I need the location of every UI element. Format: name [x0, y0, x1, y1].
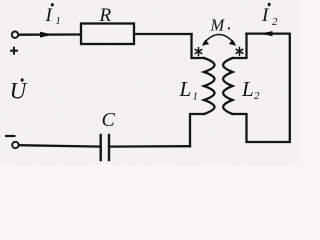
- svg-text:2: 2: [272, 16, 278, 28]
- wire: L1 bottom to lower-left corner: [190, 114, 204, 146]
- svg-text:L: L: [241, 77, 254, 101]
- svg-text:M: M: [210, 16, 226, 35]
- label L2: [241, 77, 260, 102]
- wire: bottom right segment (L1 to capacitor): [109, 145, 190, 148]
- wire: resistor to left step: [135, 33, 192, 35]
- wire: L2 bottom to right loop: [233, 34, 290, 142]
- voltage label U: [10, 78, 28, 103]
- current label I1: [45, 3, 61, 27]
- inductor L1: [204, 58, 215, 114]
- svg-text:R: R: [99, 5, 112, 26]
- current label I2: [261, 3, 278, 28]
- minus sign: [5, 135, 16, 137]
- svg-text:U: U: [10, 79, 28, 104]
- resistor R: [81, 24, 134, 45]
- arrowhead of current I1: [40, 32, 53, 38]
- wire: right step vertical: [233, 34, 247, 58]
- plus sign: [10, 47, 18, 55]
- arrowhead of current I2: [260, 31, 273, 36]
- wire: left step vertical: [192, 34, 205, 58]
- svg-text:2: 2: [254, 90, 260, 102]
- capacitor C: [101, 135, 109, 160]
- inductor L2: [223, 58, 232, 114]
- polarity asterisk left: [195, 48, 202, 56]
- label M: [210, 16, 230, 35]
- mutual inductance arrow M (double-headed arc): [202, 35, 236, 46]
- terminal - (bottom-left): [12, 142, 18, 148]
- polarity asterisk right: [236, 47, 243, 55]
- svg-text:L: L: [179, 77, 192, 101]
- terminal + (top-left): [12, 32, 18, 38]
- wire: bottom left segment (capacitor to terminal): [19, 145, 101, 146]
- svg-text:C: C: [102, 109, 116, 131]
- wire: top-left terminal to resistor: [18, 33, 80, 36]
- svg-text:1: 1: [193, 90, 199, 102]
- label L1: [179, 77, 199, 102]
- svg-text:1: 1: [56, 16, 61, 27]
